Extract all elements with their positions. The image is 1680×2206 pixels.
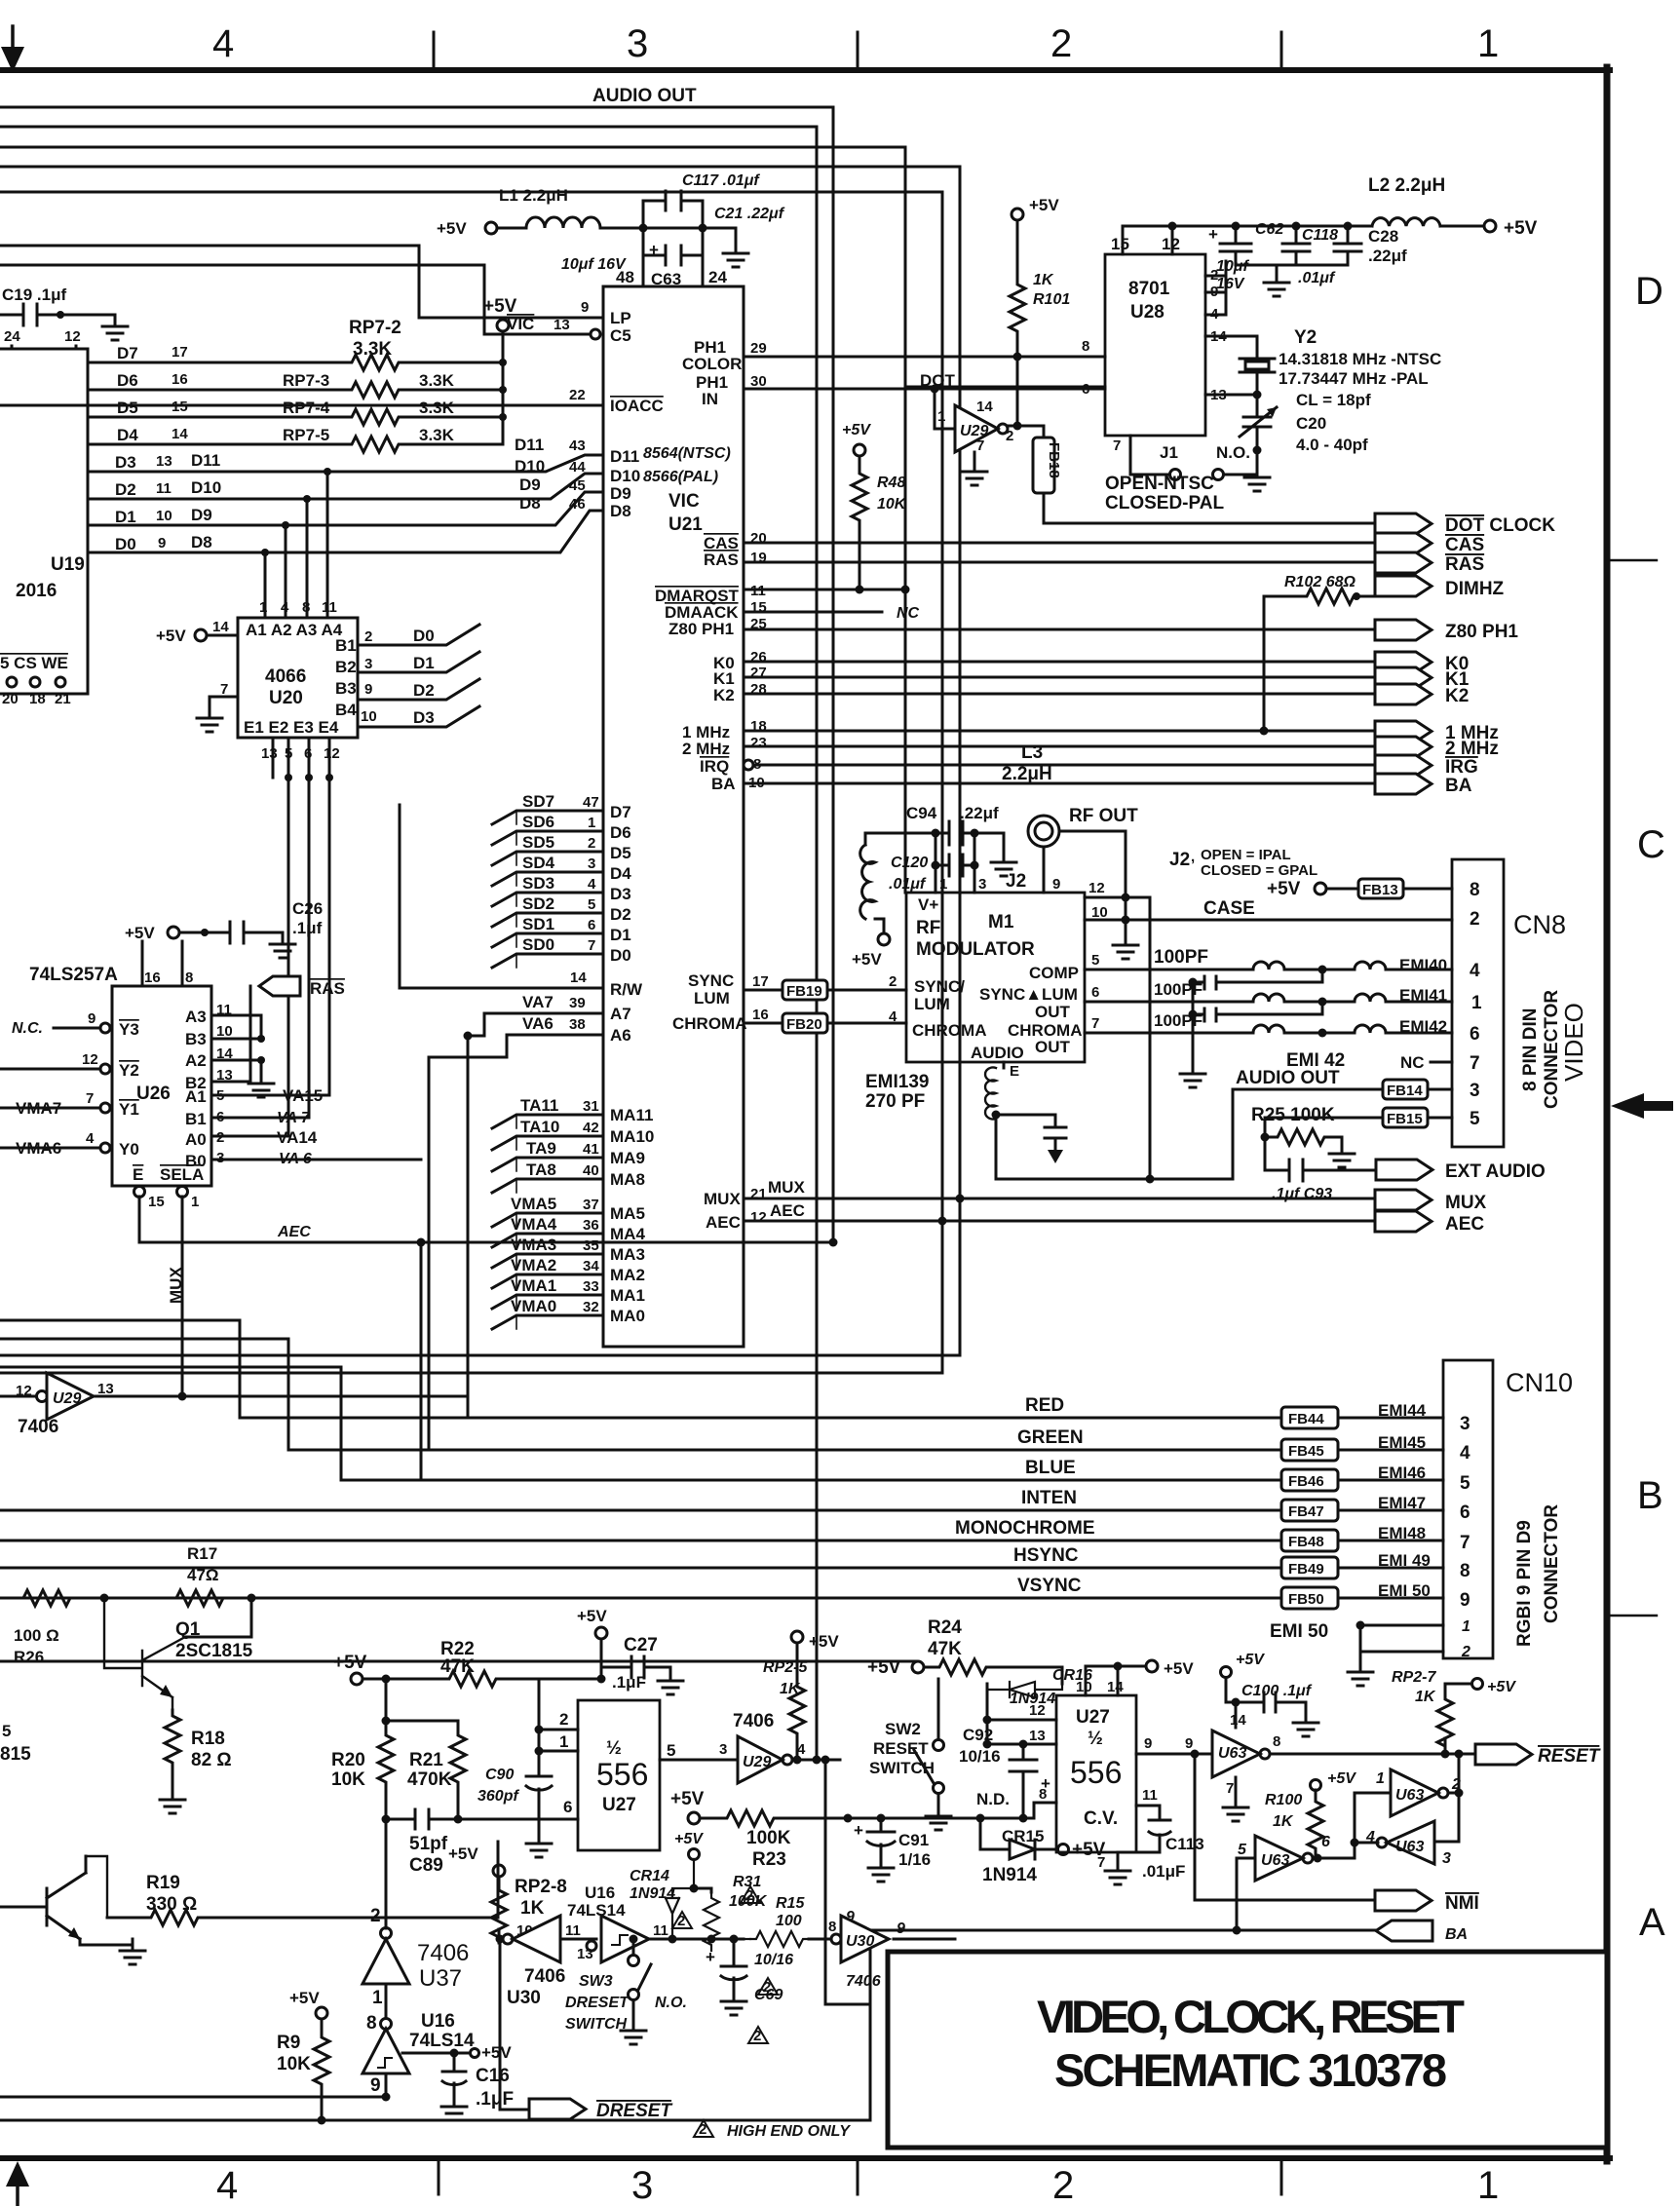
bottom pin wires: [273, 738, 329, 778]
svg-text:VA6: VA6: [522, 1014, 554, 1033]
svg-text:U27: U27: [602, 1795, 636, 1815]
tie 2/9/4: [1225, 261, 1228, 315]
ground C26: [270, 932, 295, 958]
wire U63#4 out to latch: [1313, 1843, 1355, 1858]
junction dot pin12: [1122, 894, 1130, 902]
ground SW2: [937, 1794, 940, 1805]
svg-text:D9: D9: [191, 506, 212, 524]
svg-text:11: 11: [653, 1922, 668, 1939]
svg-text:D8: D8: [519, 494, 541, 513]
svg-text:5: 5: [1460, 1473, 1470, 1494]
svg-text:A1: A1: [185, 1087, 207, 1106]
svg-text:9: 9: [1185, 1735, 1193, 1752]
svg-text:10K: 10K: [331, 1769, 365, 1790]
connector arrow K2: [1375, 684, 1432, 704]
svg-text:1: 1: [937, 408, 945, 425]
svg-text:RP7-2: RP7-2: [349, 318, 401, 338]
svg-text:EMI 49: EMI 49: [1378, 1551, 1431, 1570]
svg-text:+5V: +5V: [670, 1789, 705, 1809]
wire CASE: [1126, 919, 1452, 922]
svg-text:SW2: SW2: [885, 1720, 921, 1738]
svg-text:51pf: 51pf: [409, 1834, 448, 1854]
svg-text:14: 14: [172, 426, 188, 442]
svg-text:U63: U63: [1395, 1839, 1424, 1855]
svg-text:MA9: MA9: [610, 1149, 645, 1167]
svg-text:D5: D5: [117, 399, 138, 417]
svg-text:40: 40: [583, 1162, 599, 1179]
svg-text:CL = 18pf: CL = 18pf: [1296, 391, 1371, 409]
svg-text:6: 6: [1470, 1024, 1480, 1045]
svg-text:VMA0: VMA0: [511, 1297, 556, 1315]
svg-text:10/16: 10/16: [959, 1747, 1001, 1766]
wire pin30 to U28 pin6: [744, 388, 1105, 391]
svg-text:5: 5: [588, 896, 595, 913]
pin1 wire: [539, 1750, 578, 1753]
svg-text:J1: J1: [1160, 443, 1178, 462]
wire bus L5: [0, 147, 905, 893]
svg-text:556: 556: [1070, 1755, 1122, 1790]
svg-text:18: 18: [29, 691, 46, 707]
svg-text:RAS: RAS: [704, 551, 739, 569]
right border frame line: [1604, 67, 1611, 2161]
svg-text:VA7: VA7: [522, 993, 554, 1011]
svg-text:47K: 47K: [928, 1639, 962, 1659]
svg-text:+5V: +5V: [333, 1653, 367, 1673]
svg-text:CLOSED-PAL: CLOSED-PAL: [1105, 493, 1224, 513]
svg-text:DRESET: DRESET: [596, 2101, 672, 2121]
svg-text:+: +: [649, 241, 659, 259]
svg-text:EXT AUDIO: EXT AUDIO: [1445, 1161, 1546, 1182]
stub pin14: [1235, 1702, 1238, 1728]
svg-text:R101: R101: [1033, 291, 1070, 308]
svg-text:U28: U28: [1130, 302, 1165, 323]
timer U27 box1: [578, 1700, 660, 1850]
svg-text:7406: 7406: [524, 1966, 565, 1987]
resistor R22 47K: [443, 1671, 502, 1687]
svg-text:1N914: 1N914: [982, 1865, 1037, 1885]
wire DMAACK NC: [744, 611, 882, 614]
inverter U63 #4: [1255, 1836, 1303, 1881]
inductor L1: [526, 217, 600, 228]
junction dot MUX/7406: [178, 1392, 187, 1401]
wire A6: [429, 1035, 603, 1057]
svg-text:+5V: +5V: [289, 1989, 320, 2007]
svg-text:MA3: MA3: [610, 1245, 645, 1264]
svg-text:11: 11: [156, 480, 172, 497]
analog switch U20 4066 box: [238, 618, 358, 738]
wire RED: [0, 1320, 1281, 1418]
svg-text:IRG: IRG: [1445, 757, 1478, 778]
svg-text:9: 9: [364, 681, 372, 698]
svg-text:2 MHz: 2 MHz: [1445, 739, 1499, 759]
svg-text:+5V: +5V: [852, 950, 882, 969]
svg-text:COLOR: COLOR: [682, 355, 742, 373]
svg-text:8564(NTSC): 8564(NTSC): [643, 445, 731, 462]
svg-text:LUM: LUM: [694, 989, 730, 1008]
svg-text:L2 2.2μH: L2 2.2μH: [1368, 175, 1445, 196]
svg-text:2SC1815: 2SC1815: [175, 1641, 253, 1661]
svg-text:D11: D11: [191, 451, 220, 470]
svg-text:2: 2: [559, 1710, 568, 1729]
wire SELA MUX down: [181, 1197, 184, 1396]
svg-text:RP2-5: RP2-5: [763, 1659, 808, 1676]
svg-text:9: 9: [158, 535, 166, 551]
svg-text:R26: R26: [14, 1648, 44, 1666]
svg-text:AUDIO OUT: AUDIO OUT: [1236, 1068, 1340, 1088]
long vertical from C89 node down: [385, 1819, 388, 1928]
wire to RESET arrow: [1270, 1753, 1475, 1756]
connector arrow DRESET: [529, 2099, 586, 2119]
svg-text:R24: R24: [928, 1617, 962, 1638]
svg-text:EMI46: EMI46: [1378, 1464, 1426, 1482]
svg-text:+5V: +5V: [125, 924, 155, 942]
wire FB50 to CN10 pin9: [1338, 1597, 1443, 1600]
top-left reference arrow: [11, 26, 15, 51]
svg-text:8 PIN DIN: 8 PIN DIN: [1520, 1008, 1541, 1091]
svg-text:3.3K: 3.3K: [419, 371, 455, 390]
vertical VA6 down: [428, 1057, 431, 1450]
svg-text:17.73447 MHz -PAL: 17.73447 MHz -PAL: [1279, 369, 1429, 388]
svg-text:+5V: +5V: [1164, 1659, 1194, 1678]
svg-text:8701: 8701: [1128, 279, 1170, 299]
svg-text:2 MHz: 2 MHz: [682, 740, 730, 758]
svg-text:7406: 7406: [733, 1711, 774, 1731]
svg-text:EMI45: EMI45: [1378, 1433, 1426, 1452]
svg-text:R/W: R/W: [610, 980, 643, 999]
svg-text:SD7: SD7: [522, 792, 554, 811]
wire R101 to pin8 line: [1016, 337, 1019, 357]
svg-text:C91: C91: [898, 1831, 929, 1849]
svg-text:C16: C16: [476, 2066, 510, 2086]
svg-text:D5: D5: [610, 844, 631, 862]
wire to VIC IOACC pin 22: [0, 404, 603, 407]
svg-text:39: 39: [569, 995, 586, 1011]
svg-text:VMA1: VMA1: [511, 1276, 556, 1295]
svg-text:FB45: FB45: [1288, 1443, 1324, 1460]
junction dots RP2-5 and x847: [821, 1756, 830, 1765]
inductor L2: [1372, 218, 1440, 226]
junction dot pin13 node: [1253, 391, 1262, 399]
wire FB49 to CN10 pin8: [1338, 1567, 1443, 1570]
wire NMI: [1195, 1899, 1375, 1902]
junction dot C20 bottom: [1253, 446, 1262, 455]
wire BA left: [870, 1929, 1376, 1932]
wire IRQ: [753, 764, 1375, 767]
svg-text:U27: U27: [1076, 1707, 1110, 1728]
svg-text:6: 6: [1091, 984, 1099, 1001]
svg-text:SYNC: SYNC: [688, 971, 734, 990]
svg-text:12: 12: [324, 745, 340, 762]
svg-text:MONOCHROME: MONOCHROME: [955, 1518, 1095, 1539]
svg-text:SD3: SD3: [522, 874, 554, 893]
svg-text:EMI48: EMI48: [1378, 1524, 1426, 1542]
svg-text:MA2: MA2: [610, 1266, 645, 1284]
ferrite bead FB18 vertical: [1033, 437, 1054, 493]
svg-text:½: ½: [1088, 1729, 1103, 1749]
pin 12 stub: [1171, 226, 1174, 254]
svg-text:35: 35: [583, 1237, 599, 1254]
svg-text:R23: R23: [752, 1849, 786, 1870]
svg-text:3: 3: [1460, 1414, 1470, 1434]
bubble on C5 pin: [591, 329, 600, 339]
connector arrow Z80 PHI: [1375, 620, 1432, 640]
svg-text:IN: IN: [702, 390, 718, 408]
VMA staircase rows: [492, 1213, 603, 1329]
svg-text:34: 34: [583, 1258, 599, 1274]
wire K2: [744, 693, 1375, 696]
connector arrow DOT CLOCK: [1375, 513, 1432, 534]
svg-text:8: 8: [302, 599, 310, 616]
svg-text:C62: C62: [1255, 221, 1283, 238]
junction dots caps: [1189, 978, 1198, 987]
svg-text:RESET: RESET: [1538, 1746, 1601, 1767]
connector arrow BA: [1375, 774, 1432, 794]
svg-text:24: 24: [708, 268, 727, 286]
svg-text:DOT: DOT: [920, 371, 956, 390]
svg-text:EMI44: EMI44: [1378, 1401, 1427, 1420]
svg-text:2: 2: [364, 628, 372, 645]
svg-text:,: ,: [1191, 849, 1195, 865]
top pin 24: [702, 255, 705, 286]
svg-text:Y0: Y0: [119, 1140, 139, 1159]
junction dots R23 line: [844, 1814, 853, 1823]
svg-text:R21: R21: [409, 1750, 443, 1770]
svg-text:FB14: FB14: [1387, 1083, 1423, 1099]
svg-text:VSYNC: VSYNC: [1017, 1576, 1082, 1596]
mux U26 box: [112, 986, 211, 1186]
sram U19 2016 box: [0, 349, 88, 694]
wire AEC to arrow: [744, 1220, 1375, 1223]
svg-text:8566(PAL): 8566(PAL): [643, 469, 718, 485]
svg-text:INTEN: INTEN: [1021, 1488, 1077, 1508]
svg-text:FB15: FB15: [1387, 1111, 1423, 1127]
svg-text:C94: C94: [906, 804, 937, 822]
svg-text:RGBI 9 PIN D9: RGBI 9 PIN D9: [1514, 1520, 1535, 1647]
svg-text:17: 17: [752, 973, 769, 990]
wire K0: [744, 661, 1375, 664]
svg-text:L1 2.2μH: L1 2.2μH: [499, 186, 568, 205]
junction dot audio: [992, 1111, 1001, 1120]
svg-text:47K: 47K: [440, 1656, 475, 1677]
svg-text:GREEN: GREEN: [1017, 1427, 1084, 1448]
wire Z80PHI to arrow: [744, 628, 1375, 631]
wire FB47 to CN10 pin6: [1338, 1509, 1443, 1512]
svg-text:100PF: 100PF: [1154, 947, 1208, 968]
rf modulator M1 box: [906, 893, 1085, 1062]
svg-text:IOACC: IOACC: [610, 397, 664, 415]
svg-text:MA10: MA10: [610, 1127, 654, 1146]
svg-text:SCHEMATIC 310378: SCHEMATIC 310378: [1054, 2044, 1448, 2096]
connector arrow K1: [1375, 667, 1432, 688]
NMI feed vertical: [1194, 1754, 1197, 1900]
svg-text:C.V.: C.V.: [1084, 1808, 1118, 1829]
junction dot at 1180: [1146, 1175, 1155, 1184]
ground pin7: [1235, 1777, 1238, 1796]
wire L1 to node: [600, 227, 703, 230]
rail wire: [502, 331, 505, 444]
svg-text:FB47: FB47: [1288, 1503, 1324, 1520]
svg-text:1: 1: [588, 815, 595, 831]
svg-text:AEC: AEC: [770, 1201, 805, 1220]
capacitor C62: [1220, 226, 1251, 265]
svg-text:1: 1: [1477, 22, 1499, 65]
high-end flag triangles: [672, 1886, 778, 2043]
svg-text:C63: C63: [651, 270, 681, 288]
top tick between col 2 and 1: [1280, 32, 1283, 70]
svg-text:D7: D7: [610, 803, 631, 821]
svg-text:C28: C28: [1368, 227, 1398, 246]
svg-text:14: 14: [212, 619, 229, 635]
svg-text:10: 10: [361, 708, 377, 725]
wire to VIC C5 pin 13: [0, 265, 589, 334]
svg-text:B4: B4: [335, 701, 357, 719]
IRQ bubble: [744, 760, 753, 770]
wire +5V to C26: [179, 932, 230, 934]
svg-text:.1μf C93: .1μf C93: [1272, 1186, 1332, 1202]
wire D0/D8 row: [88, 511, 603, 552]
svg-text:3: 3: [364, 656, 372, 672]
svg-text:M1: M1: [988, 912, 1014, 932]
svg-text:DRESET: DRESET: [565, 1995, 630, 2011]
svg-text:VIDEO, CLOCK, RESET: VIDEO, CLOCK, RESET: [1037, 1991, 1466, 2042]
junction dots: [630, 1935, 638, 1944]
svg-text:N.C.: N.C.: [12, 1020, 43, 1037]
junction dot AEC x432: [417, 1238, 426, 1247]
din connector CN8 box: [1452, 859, 1504, 1147]
EMI40 coils: [1253, 962, 1386, 970]
svg-text:MUX: MUX: [167, 1267, 185, 1304]
svg-text:SD1: SD1: [522, 915, 554, 933]
svg-text:BA: BA: [711, 775, 736, 793]
svg-text:10/16: 10/16: [754, 1952, 793, 1968]
svg-text:1K: 1K: [1273, 1813, 1294, 1830]
svg-text:2: 2: [370, 1906, 381, 1926]
capacitor C120: [935, 855, 974, 876]
wire from Q2 collector: [86, 1856, 107, 1918]
svg-text:14: 14: [976, 399, 993, 415]
connector arrow RESET: [1475, 1744, 1532, 1765]
svg-text:NC: NC: [1400, 1053, 1425, 1072]
svg-text:SD2: SD2: [522, 894, 554, 913]
svg-text:1: 1: [191, 1194, 199, 1210]
ferrite bead FB13: [1358, 879, 1403, 898]
svg-text:U16: U16: [585, 1883, 615, 1902]
junction dots at C117: [639, 224, 648, 233]
svg-text:15: 15: [1111, 235, 1129, 253]
wire D7 row with RP7-2: [88, 361, 346, 364]
svg-text:D11: D11: [610, 447, 639, 466]
svg-text:Z80 PH1: Z80 PH1: [668, 620, 734, 638]
svg-text:37: 37: [583, 1197, 599, 1213]
latch feed vertical: [1458, 1754, 1461, 1793]
svg-text:A6: A6: [610, 1026, 631, 1045]
svg-text:E1 E2 E3 E4: E1 E2 E3 E4: [244, 718, 339, 737]
svg-text:12: 12: [750, 1209, 767, 1226]
audio net down and right: [996, 1089, 1383, 1179]
vertical to DRESET: [500, 1939, 529, 2110]
svg-text:5: 5: [1238, 1842, 1247, 1858]
svg-text:.1μF: .1μF: [612, 1673, 646, 1692]
svg-text:15: 15: [172, 399, 188, 415]
rail dots: [1168, 222, 1177, 231]
E pin bubble 15: [134, 1187, 145, 1198]
svg-text:AEC: AEC: [706, 1213, 741, 1232]
svg-text:CN10: CN10: [1506, 1368, 1573, 1397]
top tick between col 3 and 2: [857, 32, 859, 70]
wire U29 out to right: [94, 1396, 468, 1418]
svg-text:CR14: CR14: [630, 1868, 669, 1884]
pin 12 wire: [1085, 897, 1150, 1179]
ferrite bead FB20: [783, 1013, 827, 1033]
svg-text:24: 24: [4, 328, 20, 345]
wire FB18 to DOT CLOCK: [1044, 493, 1375, 523]
svg-text:U63: U63: [1218, 1745, 1246, 1762]
svg-text:EMI139: EMI139: [865, 1072, 929, 1092]
svg-text:3: 3: [627, 22, 648, 65]
svg-text:BLUE: BLUE: [1025, 1458, 1076, 1478]
svg-text:3: 3: [631, 2164, 653, 2206]
svg-text:Y3: Y3: [119, 1020, 139, 1039]
wire HSYNC: [0, 1567, 1281, 1570]
inverter U16b pointing up with hysteresis: [363, 2029, 409, 2073]
wire pin29 to U28 pin8: [744, 356, 1105, 359]
svg-text:13: 13: [261, 745, 278, 762]
svg-text:29: 29: [750, 340, 767, 357]
svg-text:+5V: +5V: [1236, 1652, 1265, 1668]
svg-text:N.O.: N.O.: [655, 1995, 687, 2011]
svg-text:C: C: [1637, 823, 1665, 866]
svg-text:C90: C90: [485, 1767, 514, 1783]
svg-text:11: 11: [322, 599, 337, 616]
svg-text:VIC: VIC: [507, 315, 534, 333]
EMI42 coils: [1253, 1025, 1386, 1033]
wire 2MHz: [744, 745, 1375, 748]
svg-text:46: 46: [569, 496, 586, 513]
svg-text:9: 9: [1460, 1590, 1470, 1611]
svg-text:RAS: RAS: [310, 979, 345, 998]
junction dots on D rows: [324, 468, 331, 475]
cap ground rail: [1236, 265, 1348, 271]
junction dot VA7: [464, 1032, 473, 1041]
svg-text:AUDIO OUT: AUDIO OUT: [592, 86, 697, 106]
svg-text:SELA: SELA: [160, 1165, 204, 1184]
resistor R101 vertical: [1010, 279, 1025, 337]
wire U29b out: [792, 1759, 840, 1762]
pin 3 wire: [974, 833, 976, 893]
wire to diode node: [649, 1938, 744, 1941]
svg-text:12: 12: [1088, 880, 1105, 896]
svg-text:OUT: OUT: [1035, 1003, 1071, 1021]
RAS arrow flag: [259, 976, 300, 996]
svg-text:13: 13: [97, 1381, 114, 1397]
svg-text:7: 7: [1470, 1053, 1480, 1074]
bottom rail with C89: [386, 1788, 578, 1829]
svg-text:B: B: [1637, 1474, 1663, 1517]
svg-text:D0: D0: [610, 946, 631, 965]
svg-text:12: 12: [82, 1051, 98, 1068]
svg-text:MODULATOR: MODULATOR: [916, 939, 1035, 960]
svg-text:+5V: +5V: [842, 422, 871, 438]
wire tri4 input to BA line: [1237, 1858, 1255, 1930]
svg-text:FB44: FB44: [1288, 1411, 1324, 1427]
svg-text:COMP: COMP: [1029, 964, 1079, 982]
right frame tick D/C: [1610, 559, 1657, 561]
svg-text:L3: L3: [1021, 742, 1043, 763]
svg-text:8: 8: [1470, 880, 1480, 900]
svg-text:SD5: SD5: [522, 833, 554, 852]
wire FB48 to CN10 pin7: [1338, 1540, 1443, 1542]
svg-text:Z80 PH1: Z80 PH1: [1445, 622, 1518, 642]
